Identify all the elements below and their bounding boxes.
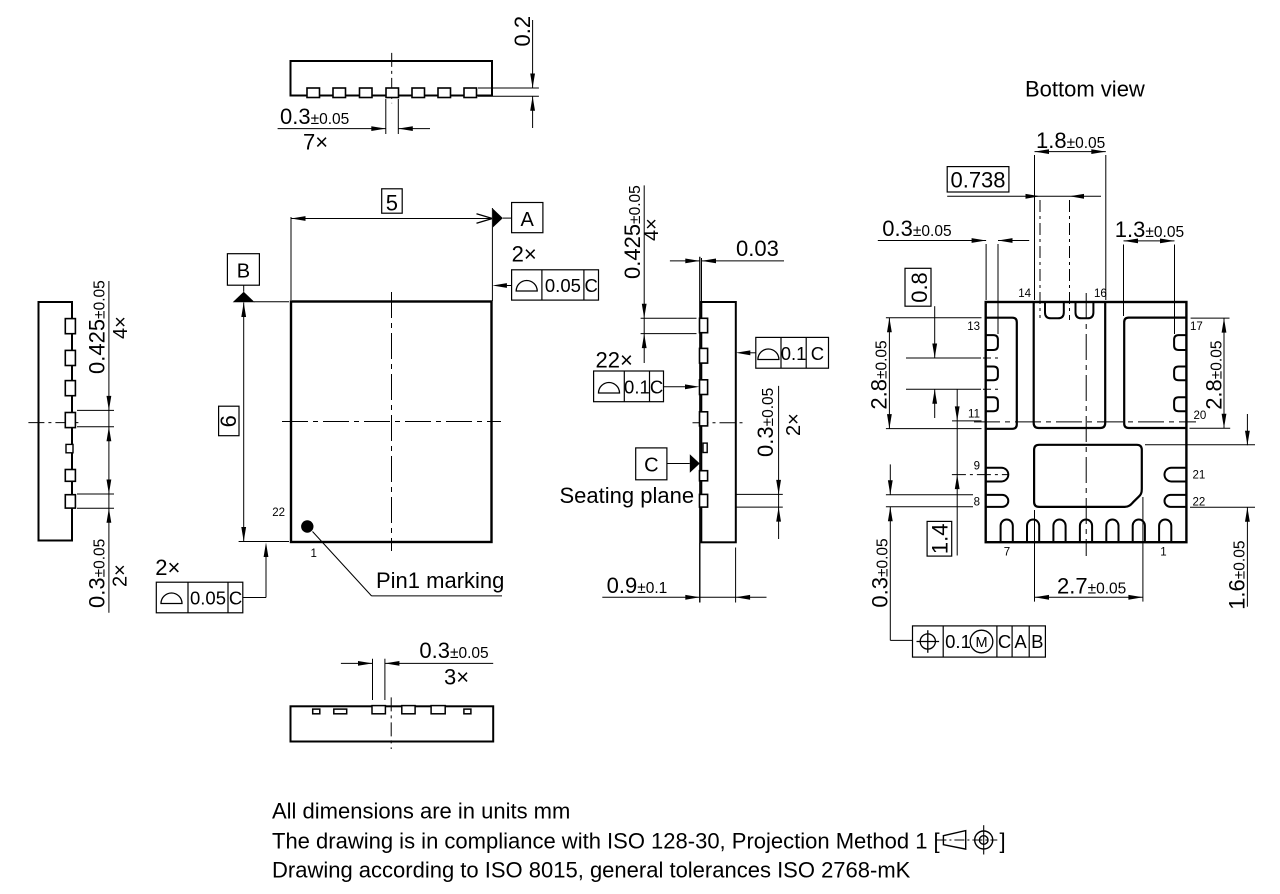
- svg-text:9: 9: [974, 461, 980, 473]
- pin 9 centerline: [952, 474, 1009, 476]
- top edge view centerline: [391, 53, 393, 103]
- left side view centerline: [28, 422, 82, 424]
- bottom edge view body: [291, 706, 494, 741]
- svg-text:0.03: 0.03: [736, 236, 779, 261]
- dimension 0.3 +/-0.05 3x (bottom edge view): [341, 638, 493, 700]
- svg-text:Seating plane: Seating plane: [560, 483, 695, 508]
- svg-text:20: 20: [1194, 410, 1207, 422]
- bottom edge view centerline: [390, 697, 392, 749]
- first angle projection symbol: [936, 825, 1005, 854]
- top center pad slots: [1045, 302, 1093, 318]
- svg-text:A: A: [521, 209, 535, 231]
- svg-text:A: A: [1014, 631, 1027, 652]
- bottom view vertical centerline: [1085, 293, 1087, 556]
- svg-text:21: 21: [1193, 470, 1206, 482]
- dimension 5 (package width) with boxed basic value: [291, 189, 492, 301]
- top edge view body: [291, 61, 493, 96]
- dimension 1.3 +/-0.05 (right pad width): [1115, 217, 1184, 334]
- svg-text:2×: 2×: [783, 413, 805, 436]
- pin 22 pad: [1165, 495, 1187, 507]
- svg-text:]: ]: [1000, 829, 1006, 854]
- dimension 0.2 (lead standoff, top view): [478, 16, 539, 128]
- pin 8 pad: [986, 495, 1009, 507]
- dimension 1.4 boxed (pin 9 position) and second 0.8 pitch line: [927, 389, 981, 556]
- pin 9 pad: [986, 468, 1009, 482]
- pin 1 marking dot: [301, 520, 313, 532]
- svg-text:4×: 4×: [110, 316, 132, 339]
- svg-text:17: 17: [1190, 321, 1203, 333]
- pin 21 pad: [1165, 468, 1187, 482]
- pin number labels (bottom view): [967, 288, 1206, 559]
- svg-text:0.8: 0.8: [907, 272, 932, 303]
- dimension 2.8 +/-0.05 (right): [1190, 318, 1231, 428]
- main top view package body: [291, 302, 492, 543]
- dimension 0.3 +/-0.05 2x (left view): [77, 480, 132, 609]
- dimension 2.8 +/-0.05 (left): [867, 318, 982, 429]
- datum C symbol and label box: [636, 448, 700, 480]
- svg-text:4×: 4×: [641, 218, 663, 241]
- dimension 0.9 +/-0.1 (package thickness): [602, 543, 766, 603]
- dimension 2.7 +/-0.05 (thermal pad width): [1035, 497, 1143, 602]
- svg-text:0.738: 0.738: [950, 168, 1005, 193]
- svg-text:M: M: [975, 635, 987, 651]
- svg-text:3×: 3×: [444, 665, 469, 690]
- svg-text:0.1: 0.1: [781, 343, 807, 364]
- svg-text:B: B: [237, 261, 250, 283]
- bottom view horizontal centerline: [974, 421, 1196, 423]
- svg-text:0.05: 0.05: [190, 588, 226, 609]
- seating plane line (datum C surface): [699, 257, 701, 603]
- svg-text:8: 8: [974, 497, 980, 509]
- dimension 0.03 (seating plane offset): [670, 236, 784, 302]
- svg-text:13: 13: [967, 321, 980, 333]
- svg-text:16: 16: [1094, 288, 1107, 300]
- feature control frame profile 0.05 C (bottom left): [156, 543, 268, 613]
- svg-text:0.1: 0.1: [945, 631, 971, 652]
- svg-text:Pin1 marking: Pin1 marking: [376, 568, 504, 593]
- svg-text:0.1: 0.1: [624, 377, 650, 398]
- dimension 0.3 +/-0.05 2x (middle view right): [736, 386, 805, 539]
- svg-text:All dimensions are in units mm: All dimensions are in units mm: [272, 799, 570, 824]
- svg-text:7×: 7×: [303, 130, 328, 155]
- dimension 0.425 +/-0.05 4x (middle view): [620, 185, 697, 363]
- main view horizontal centerline: [282, 421, 501, 423]
- dimension 1.6 +/-0.05 (thermal pad position): [1145, 414, 1255, 610]
- bottom view package outline: [986, 302, 1187, 542]
- svg-text:The drawing is in compliance w: The drawing is in compliance with ISO 12…: [272, 829, 940, 854]
- svg-text:C: C: [229, 588, 242, 609]
- svg-text:7: 7: [1004, 547, 1010, 559]
- feature control frame profile 0.1 C (body side, right): [736, 337, 829, 368]
- svg-text:2×: 2×: [155, 555, 180, 580]
- svg-text:C: C: [650, 377, 663, 398]
- svg-text:C: C: [998, 631, 1011, 652]
- right pad (pins 17-20): [1124, 318, 1186, 428]
- left side view body: [39, 302, 73, 541]
- dimension 0.3 +/-0.05 (left pad notch depth): [878, 216, 1029, 334]
- dimension 0.8 boxed (pad segment pitch): [905, 268, 998, 418]
- svg-text:1: 1: [311, 548, 317, 560]
- svg-text:22×: 22×: [596, 348, 633, 373]
- middle side view pins: [700, 318, 708, 507]
- svg-text:C: C: [811, 343, 824, 364]
- feature control frame profile 0.1 C (leads, left): [594, 371, 700, 402]
- left side view pins: [65, 319, 75, 509]
- svg-text:11: 11: [968, 409, 980, 421]
- svg-text:2×: 2×: [512, 242, 537, 267]
- svg-text:1.4: 1.4: [928, 524, 953, 555]
- svg-text:Bottom view: Bottom view: [1025, 77, 1145, 102]
- svg-text:0.05: 0.05: [545, 275, 581, 296]
- bottom edge pins 1-7: [1001, 519, 1172, 542]
- svg-text:14: 14: [1018, 288, 1031, 300]
- left pad notches: [986, 335, 998, 411]
- dimension 0.425 +/-0.05 4x (left view): [77, 280, 132, 612]
- dimension 0.3 +/-0.05 (pin 8 width, bottom left): [868, 464, 974, 640]
- dimension 1.8 +/-0.05 (top pad width): [1035, 128, 1106, 300]
- svg-text:1: 1: [1160, 547, 1166, 559]
- top edge view pins: [307, 88, 477, 98]
- middle side view body: [701, 302, 736, 542]
- svg-text:22: 22: [272, 507, 285, 519]
- top center pad (pins 14-16): [1034, 302, 1106, 428]
- svg-text:5: 5: [386, 191, 398, 216]
- bottom edge view pins: [313, 706, 471, 714]
- right pad notches: [1174, 335, 1186, 411]
- svg-text:2×: 2×: [110, 564, 132, 587]
- datum A symbol and label box: [493, 203, 543, 233]
- svg-text:C: C: [644, 455, 658, 477]
- svg-text:6: 6: [216, 415, 241, 427]
- bottom center pad (thermal pad) with pin-1 chamfer: [1034, 445, 1142, 507]
- datum B symbol and label box: [227, 254, 289, 303]
- svg-text:0.2: 0.2: [510, 16, 535, 47]
- dimension 6 (package height) with boxed basic value: [216, 303, 289, 542]
- svg-text:B: B: [1031, 631, 1043, 652]
- svg-text:Drawing according to ISO 8015,: Drawing according to ISO 8015, general t…: [272, 858, 911, 883]
- middle side view centerline: [693, 422, 745, 424]
- dimension 0.3 +/-0.05 7x (lead pitch, top view): [278, 99, 430, 155]
- feature control frame profile 0.05 C (top right): [492, 270, 598, 300]
- main view vertical centerline: [391, 292, 393, 551]
- Pin1 marking leader and label: [313, 532, 505, 596]
- svg-text:C: C: [585, 275, 598, 296]
- dimension 0.738 boxed (slot position): [947, 167, 1101, 320]
- left pad (pins 11-13): [986, 318, 1017, 429]
- position tolerance frame 0.1 M C A B: [913, 626, 1046, 657]
